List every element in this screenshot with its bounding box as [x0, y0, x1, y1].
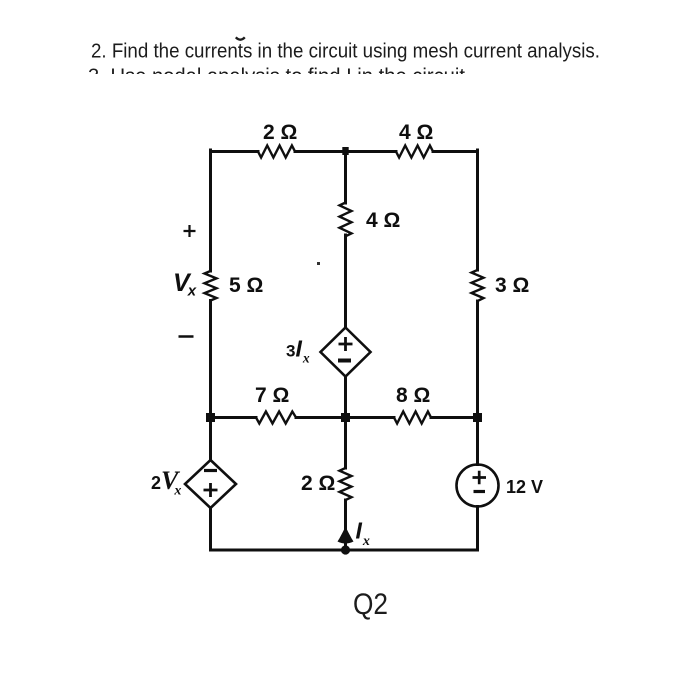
svg-text:3 Ω: 3 Ω: [495, 274, 529, 297]
resistor R 4ohm top zigzag: [396, 146, 433, 158]
wire middle horizontal mid: [296, 416, 394, 419]
wire left vertical middle: [209, 301, 212, 461]
svg-text:12 V: 12 V: [506, 477, 543, 497]
junction node dot top middle: [342, 147, 348, 155]
wire right vertical upper: [476, 150, 479, 270]
wire middle vertical mid: [344, 235, 347, 328]
wire right vertical middle: [476, 301, 479, 465]
svg-text:4 Ω: 4 Ω: [399, 121, 433, 144]
sign plus left of Vx: [184, 225, 196, 237]
wire middle vertical lower2: [344, 500, 347, 550]
sign plus in 3Ix diamond: [339, 337, 353, 351]
svg-text:3Ix: 3Ix: [286, 336, 310, 366]
sign minus in 3Ix diamond: [338, 359, 351, 363]
svg-text:8 Ω: 8 Ω: [396, 384, 430, 407]
resistor R 2ohm bottom zigzag: [340, 468, 352, 500]
resistor R 5ohm left zigzag: [205, 271, 217, 301]
resistor R 3ohm right zigzag: [472, 270, 484, 301]
junction node dot mid-right: [473, 413, 482, 422]
junction node dot mid-left: [206, 413, 215, 422]
svg-text:Vx: Vx: [173, 269, 197, 300]
clipped title line 2: [88, 65, 465, 88]
current arrow Ix: [338, 526, 354, 544]
wire middle vertical upper: [344, 152, 347, 204]
wire top-left segment: [211, 150, 259, 153]
sign minus in 2Vx diamond: [204, 469, 217, 472]
sign plus in 2Vx diamond: [204, 483, 218, 497]
svg-text:Q2: Q2: [353, 588, 388, 621]
resistor R 8ohm zigzag: [394, 412, 431, 424]
svg-text:2 Ω: 2 Ω: [263, 121, 297, 144]
wire top-right segment: [433, 150, 478, 153]
wire left vertical upper: [209, 150, 212, 271]
wire right vertical lower: [476, 507, 479, 551]
svg-text:Ix: Ix: [356, 518, 370, 550]
sign minus in 12V circle: [474, 490, 486, 493]
svg-text:2. Find the currents in the ci: 2. Find the currents in the circuit usin…: [91, 40, 600, 62]
svg-text:2 Ω: 2 Ω: [301, 472, 335, 495]
wire middle vertical lower1: [344, 377, 347, 469]
stray dot: [317, 262, 320, 265]
resistor R 2ohm top zigzag: [258, 146, 295, 158]
wire middle horizontal left: [211, 416, 257, 419]
resistor R 4ohm middle zigzag: [340, 203, 352, 237]
wire bottom: [211, 549, 478, 552]
voltage source V 12V circle: [457, 465, 499, 507]
junction node dot mid-center: [341, 413, 350, 422]
junction node dot bottom-center: [341, 545, 350, 554]
wire left vertical lower: [209, 508, 212, 550]
svg-text:5 Ω: 5 Ω: [229, 274, 263, 297]
svg-text:2Vx: 2Vx: [151, 466, 181, 499]
sign minus left below Vx: [179, 335, 194, 338]
wire middle horizontal right: [431, 416, 478, 419]
sign plus in 12V circle: [473, 471, 487, 484]
wire top-middle segment: [295, 150, 396, 153]
dependent source D 3Ix diamond: [321, 328, 371, 377]
resistor R 7ohm zigzag: [256, 412, 296, 424]
svg-text:3. Use nodal analysis to find: 3. Use nodal analysis to find I in the c…: [88, 65, 465, 88]
breve mark above currents: [236, 37, 245, 39]
svg-text:4 Ω: 4 Ω: [366, 209, 400, 232]
dependent source D 2Vx diamond: [185, 460, 236, 508]
svg-text:7 Ω: 7 Ω: [255, 384, 289, 407]
